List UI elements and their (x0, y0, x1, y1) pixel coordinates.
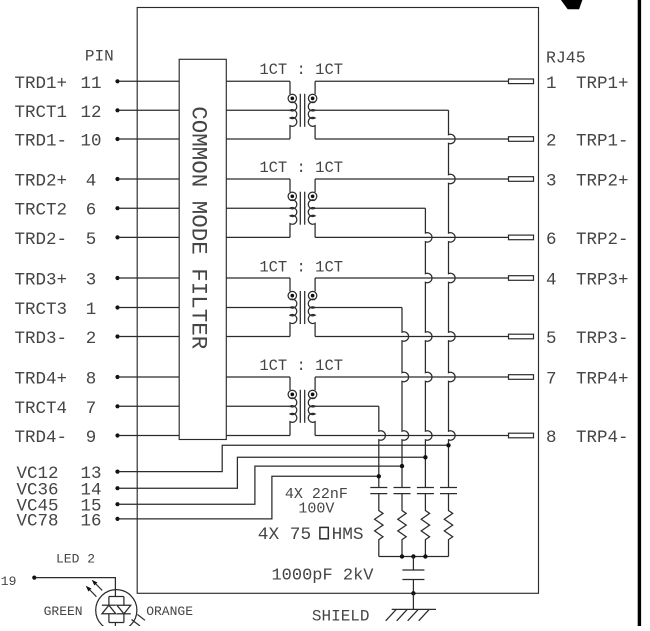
node VC78 (pin 16) label (16, 511, 58, 531)
pin number 15 (80, 497, 101, 517)
net label TRP2- (576, 230, 629, 250)
svg-text:16: 16 (80, 511, 101, 531)
terminal dot VC45 (115, 502, 119, 506)
pin number 1 (86, 300, 97, 320)
junction bus left (400, 554, 404, 558)
node TRD4+ (pin 8) label (15, 370, 68, 390)
svg-text:HMS: HMS (332, 525, 364, 545)
net label SHIELD (312, 607, 370, 625)
LED D2 circle (96, 590, 137, 631)
RJ45 contact pin 1 (509, 79, 534, 84)
svg-text:6: 6 (546, 230, 557, 250)
wire filter to transformer (TRD4-) (226, 435, 290, 437)
terminal dot TRD4- (115, 433, 119, 437)
node TRCT4 (pin 7) label (15, 399, 68, 419)
pin number 2 (546, 132, 557, 152)
pin number 12 (80, 103, 101, 123)
transformer T4 primary winding (288, 377, 297, 436)
terminal dot TRCT3 (115, 305, 119, 309)
wire T3 secondary center tap (315, 307, 402, 309)
node TRCT3 (pin 1) label (15, 300, 68, 320)
wire filter to transformer (TRCT3) (226, 307, 290, 309)
wire TRD4- to filter (119, 435, 180, 437)
wire transformer secondary to RJ45 pin 8 (315, 435, 508, 437)
svg-text:TRP2-: TRP2- (576, 230, 629, 250)
wire transformer secondary to RJ45 pin 1 (315, 80, 508, 82)
wire T4 secondary center tap (315, 405, 379, 407)
wire transformer secondary to RJ45 pin 7 (315, 376, 508, 378)
capacitor 22nF C4 (440, 488, 457, 494)
svg-text:3: 3 (546, 172, 557, 192)
svg-text:SHIELD: SHIELD (312, 607, 370, 625)
svg-text:1CT : 1CT: 1CT : 1CT (259, 61, 343, 79)
common mode filter U1 box (179, 59, 226, 439)
node TRCT2 (pin 6) label (15, 201, 68, 221)
LED emission arrows (86, 580, 103, 597)
wire filter to transformer (TRD2+) (226, 178, 290, 180)
terminal dot TRCT4 (115, 404, 119, 408)
junction bus right (423, 554, 427, 558)
wire transformer secondary to RJ45 pin 4 (315, 277, 508, 279)
svg-text:TRD3-: TRD3- (15, 329, 68, 349)
transformer T4 core (300, 390, 304, 423)
wire T1 center tap drop (with hops) (449, 110, 456, 487)
svg-text:4X 75: 4X 75 (258, 525, 311, 545)
pin number 10 (80, 132, 101, 152)
svg-text:TRP3+: TRP3+ (576, 271, 629, 291)
svg-text:TRCT1: TRCT1 (15, 103, 68, 123)
wire VC12 to center-tap line (119, 445, 449, 471)
wire transformer secondary to RJ45 pin 2 (315, 138, 508, 140)
node TRD3- (pin 2) label (15, 329, 68, 349)
terminal dot TRD3- (115, 334, 119, 338)
pin number 14 (80, 481, 101, 501)
wire T4 center tap drop (with hops) (379, 406, 386, 487)
svg-text:7: 7 (86, 399, 97, 419)
transformer T1 secondary winding (308, 81, 317, 139)
pin number 5 (86, 230, 97, 250)
transformer T4 secondary winding (308, 377, 317, 436)
capacitor 22nF C2 (394, 488, 411, 494)
wire T2 secondary center tap (315, 207, 425, 209)
wire filter to transformer (TRD2-) (226, 236, 290, 238)
value label 4X 75 OHMS (258, 525, 329, 545)
svg-text:TRD4-: TRD4- (15, 428, 68, 448)
terminal dot VC78 (115, 517, 119, 521)
terminal dot VC36 (115, 486, 119, 490)
ORANGE label (146, 604, 193, 619)
svg-text:TRP4-: TRP4- (576, 428, 629, 448)
wire VC78 to center-tap line (119, 476, 379, 519)
pin number 9 (86, 428, 97, 448)
pin number 8 (546, 428, 557, 448)
wire TRD1+ to filter (119, 80, 180, 82)
svg-text:1CT : 1CT: 1CT : 1CT (259, 159, 343, 177)
wire TRD4+ to filter (119, 376, 180, 378)
RJ45 label (546, 49, 586, 68)
transformer T1 primary winding (288, 81, 297, 139)
terminal dot TRD3+ (115, 276, 119, 280)
wire TRD3- to filter (119, 336, 180, 338)
transformer T3 primary winding (288, 278, 297, 337)
wire filter to transformer (TRCT4) (226, 405, 290, 407)
node TRD2- (pin 5) label (15, 230, 68, 250)
label 1CT : 1CT (T1) (259, 61, 343, 79)
node TRD4- (pin 9) label (15, 428, 68, 448)
terminal dot TRD4+ (115, 375, 119, 379)
pin number 2 (86, 329, 97, 349)
wire transformer secondary to RJ45 pin 6 (315, 236, 508, 238)
pin number 3 (546, 172, 557, 192)
wire pin 19 to LED (35, 578, 115, 597)
terminal dot TRD1- (115, 137, 119, 141)
page border bar (right edge) (638, 0, 641, 626)
wire TRCT2 to filter (119, 207, 180, 209)
svg-text:TRP2+: TRP2+ (576, 172, 629, 192)
wire filter to transformer (TRD1-) (226, 138, 290, 140)
junction VC12 (446, 443, 450, 447)
node TRD1- (pin 10) label (15, 132, 68, 152)
svg-text:5: 5 (546, 329, 557, 349)
svg-text:100V: 100V (298, 500, 334, 517)
RJ45 contact pin 3 (509, 177, 534, 182)
transformer T2 core (300, 192, 304, 225)
pin 19 label (1, 574, 17, 589)
label 1CT : 1CT (T4) (259, 357, 343, 375)
transformer T2 secondary winding (308, 179, 317, 237)
junction shield at body (411, 591, 415, 595)
terminal dot TRD2- (115, 235, 119, 239)
RJ45 contact pin 6 (509, 235, 534, 240)
RJ45 contact pin 7 (509, 375, 534, 380)
terminal dot pin 19 (32, 576, 36, 580)
transformer T3 secondary winding (308, 278, 317, 337)
pin number 13 (80, 464, 101, 484)
svg-text:TRP1-: TRP1- (576, 132, 629, 152)
net label TRP2+ (576, 172, 629, 192)
svg-text:GREEN: GREEN (44, 604, 83, 619)
common mode filter label (186, 106, 212, 349)
connector body outline (137, 8, 538, 594)
svg-text:LED 2: LED 2 (56, 552, 95, 567)
RJ45 contact pin 2 (509, 137, 534, 142)
value label OHMS text (332, 525, 364, 545)
svg-text:1000pF 2kV: 1000pF 2kV (271, 567, 374, 586)
wire shield to ground (412, 593, 414, 609)
pin number 6 (546, 230, 557, 250)
svg-text:3: 3 (86, 271, 97, 291)
svg-text:TRCT4: TRCT4 (15, 399, 68, 419)
svg-text:1: 1 (86, 300, 97, 320)
svg-text:TRP4+: TRP4+ (576, 370, 629, 390)
net label TRP1+ (576, 74, 629, 94)
wire filter to transformer (TRD1+) (226, 80, 290, 82)
node TRCT1 (pin 12) label (15, 103, 68, 123)
transformer T2 primary winding (288, 179, 297, 237)
wire VC36 to center-tap line (119, 457, 426, 488)
svg-text:19: 19 (1, 574, 17, 589)
terminal dot TRCT1 (115, 108, 119, 112)
wire TRD2+ to filter (119, 178, 180, 180)
wire filter to transformer (TRCT1) (226, 109, 290, 111)
transformer T1 core (300, 94, 304, 127)
label 1CT : 1CT (T2) (259, 159, 343, 177)
svg-text:COMMON MODE FILTER: COMMON MODE FILTER (186, 106, 212, 349)
pin number 7 (86, 399, 97, 419)
net label TRP3- (576, 329, 629, 349)
value label 100V (298, 500, 334, 517)
svg-text:TRCT3: TRCT3 (15, 300, 68, 320)
terminal dot TRD1+ (115, 79, 119, 83)
wire VC45 to center-tap line (119, 466, 403, 504)
LED lower emission arrows (clipped) (132, 615, 146, 627)
pin number 7 (546, 370, 557, 390)
label 1CT : 1CT (T3) (259, 258, 343, 276)
pin number 5 (546, 329, 557, 349)
pin number 6 (86, 201, 97, 221)
value label 4X 22nF (285, 486, 348, 503)
wire filter to transformer (TRD3-) (226, 336, 290, 338)
node TRD3+ (pin 3) label (15, 271, 68, 291)
svg-text:VC78: VC78 (16, 511, 58, 531)
pin number 3 (86, 271, 97, 291)
svg-text:9: 9 (86, 428, 97, 448)
wire resistor common bus (379, 556, 449, 558)
junction VC78 (377, 474, 381, 478)
svg-text:10: 10 (80, 132, 101, 152)
node TRD2+ (pin 4) label (15, 172, 68, 192)
resistor 75 ohm R3 (421, 494, 429, 557)
net label TRP3+ (576, 271, 629, 291)
svg-text:2: 2 (86, 329, 97, 349)
pin number 4 (546, 271, 557, 291)
wire TRD3+ to filter (119, 277, 180, 279)
svg-text:ORANGE: ORANGE (146, 604, 193, 619)
svg-text:TRP3-: TRP3- (576, 329, 629, 349)
terminal dot VC12 (115, 470, 119, 474)
junction VC36 (423, 455, 427, 459)
svg-text:TRP1+: TRP1+ (576, 74, 629, 94)
svg-text:TRD3+: TRD3+ (15, 271, 68, 291)
chassis ground symbol (386, 609, 436, 620)
svg-text:TRD4+: TRD4+ (15, 370, 68, 390)
resistor 75 ohm R4 (444, 494, 452, 557)
PIN column header (85, 48, 114, 66)
wire TRCT4 to filter (119, 405, 180, 407)
svg-text:4: 4 (546, 271, 557, 291)
svg-text:TRD1+: TRD1+ (15, 74, 68, 94)
pin number 8 (86, 370, 97, 390)
svg-text:TRD1-: TRD1- (15, 132, 68, 152)
pin number 11 (80, 74, 101, 94)
LED rails (109, 597, 124, 627)
node VC12 (pin 13) label (16, 464, 58, 484)
svg-text:5: 5 (86, 230, 97, 250)
svg-text:12: 12 (80, 103, 101, 123)
LED 2 label (56, 552, 95, 567)
terminal dot TRCT2 (115, 206, 119, 210)
svg-text:4: 4 (86, 172, 97, 192)
svg-text:7: 7 (546, 370, 557, 390)
svg-text:6: 6 (86, 201, 97, 221)
wire T3 center tap drop (with hops) (402, 308, 409, 488)
svg-text:2: 2 (546, 132, 557, 152)
LED D2 orange diode (117, 597, 131, 623)
node TRD1+ (pin 11) label (15, 74, 68, 94)
logo fragment (clipped black triangle, top) (561, 0, 583, 9)
pin number 1 (546, 74, 557, 94)
resistor 75 ohm R1 (375, 494, 383, 557)
junction VC45 (400, 464, 404, 468)
capacitor 22nF C3 (417, 488, 434, 494)
svg-text:8: 8 (546, 428, 557, 448)
svg-text:PIN: PIN (85, 48, 114, 66)
LED D2 green diode (102, 597, 116, 623)
resistor 75 ohm R2 (398, 494, 406, 557)
transformer T3 core (300, 291, 304, 324)
value label 1000pF 2kV (271, 567, 374, 586)
wire TRCT1 to filter (119, 109, 180, 111)
wire TRD2- to filter (119, 236, 180, 238)
svg-text:8: 8 (86, 370, 97, 390)
svg-text:TRD2-: TRD2- (15, 230, 68, 250)
svg-text:11: 11 (80, 74, 101, 94)
terminal dot TRD2+ (115, 177, 119, 181)
node VC45 (pin 15) label (16, 497, 58, 517)
node VC36 (pin 14) label (16, 481, 58, 501)
wire transformer secondary to RJ45 pin 5 (315, 336, 508, 338)
wire filter to transformer (TRCT2) (226, 207, 290, 209)
RJ45 contact pin 5 (509, 334, 534, 339)
RJ45 contact pin 4 (509, 276, 534, 281)
svg-text:1CT : 1CT: 1CT : 1CT (259, 357, 343, 375)
capacitor 1000pF C5 (402, 557, 424, 594)
wire filter to transformer (TRD4+) (226, 376, 290, 378)
pin number 16 (80, 511, 101, 531)
svg-text:1CT : 1CT: 1CT : 1CT (259, 258, 343, 276)
svg-text:1: 1 (546, 74, 557, 94)
wire transformer secondary to RJ45 pin 3 (315, 178, 508, 180)
wire TRD1- to filter (119, 138, 180, 140)
svg-text:TRD2+: TRD2+ (15, 172, 68, 192)
wire TRCT3 to filter (119, 307, 180, 309)
GREEN label (44, 604, 83, 619)
wire filter to transformer (TRD3+) (226, 277, 290, 279)
net label TRP4- (576, 428, 629, 448)
capacitor 22nF C1 (370, 488, 387, 494)
wire T1 secondary center tap (315, 109, 448, 111)
svg-text:TRCT2: TRCT2 (15, 201, 68, 221)
net label TRP4+ (576, 370, 629, 390)
wire T2 center tap drop (with hops) (425, 208, 432, 487)
net label TRP1- (576, 132, 629, 152)
pin number 4 (86, 172, 97, 192)
RJ45 contact pin 8 (509, 433, 534, 438)
junction bus center (411, 554, 415, 558)
svg-text:RJ45: RJ45 (546, 49, 586, 68)
